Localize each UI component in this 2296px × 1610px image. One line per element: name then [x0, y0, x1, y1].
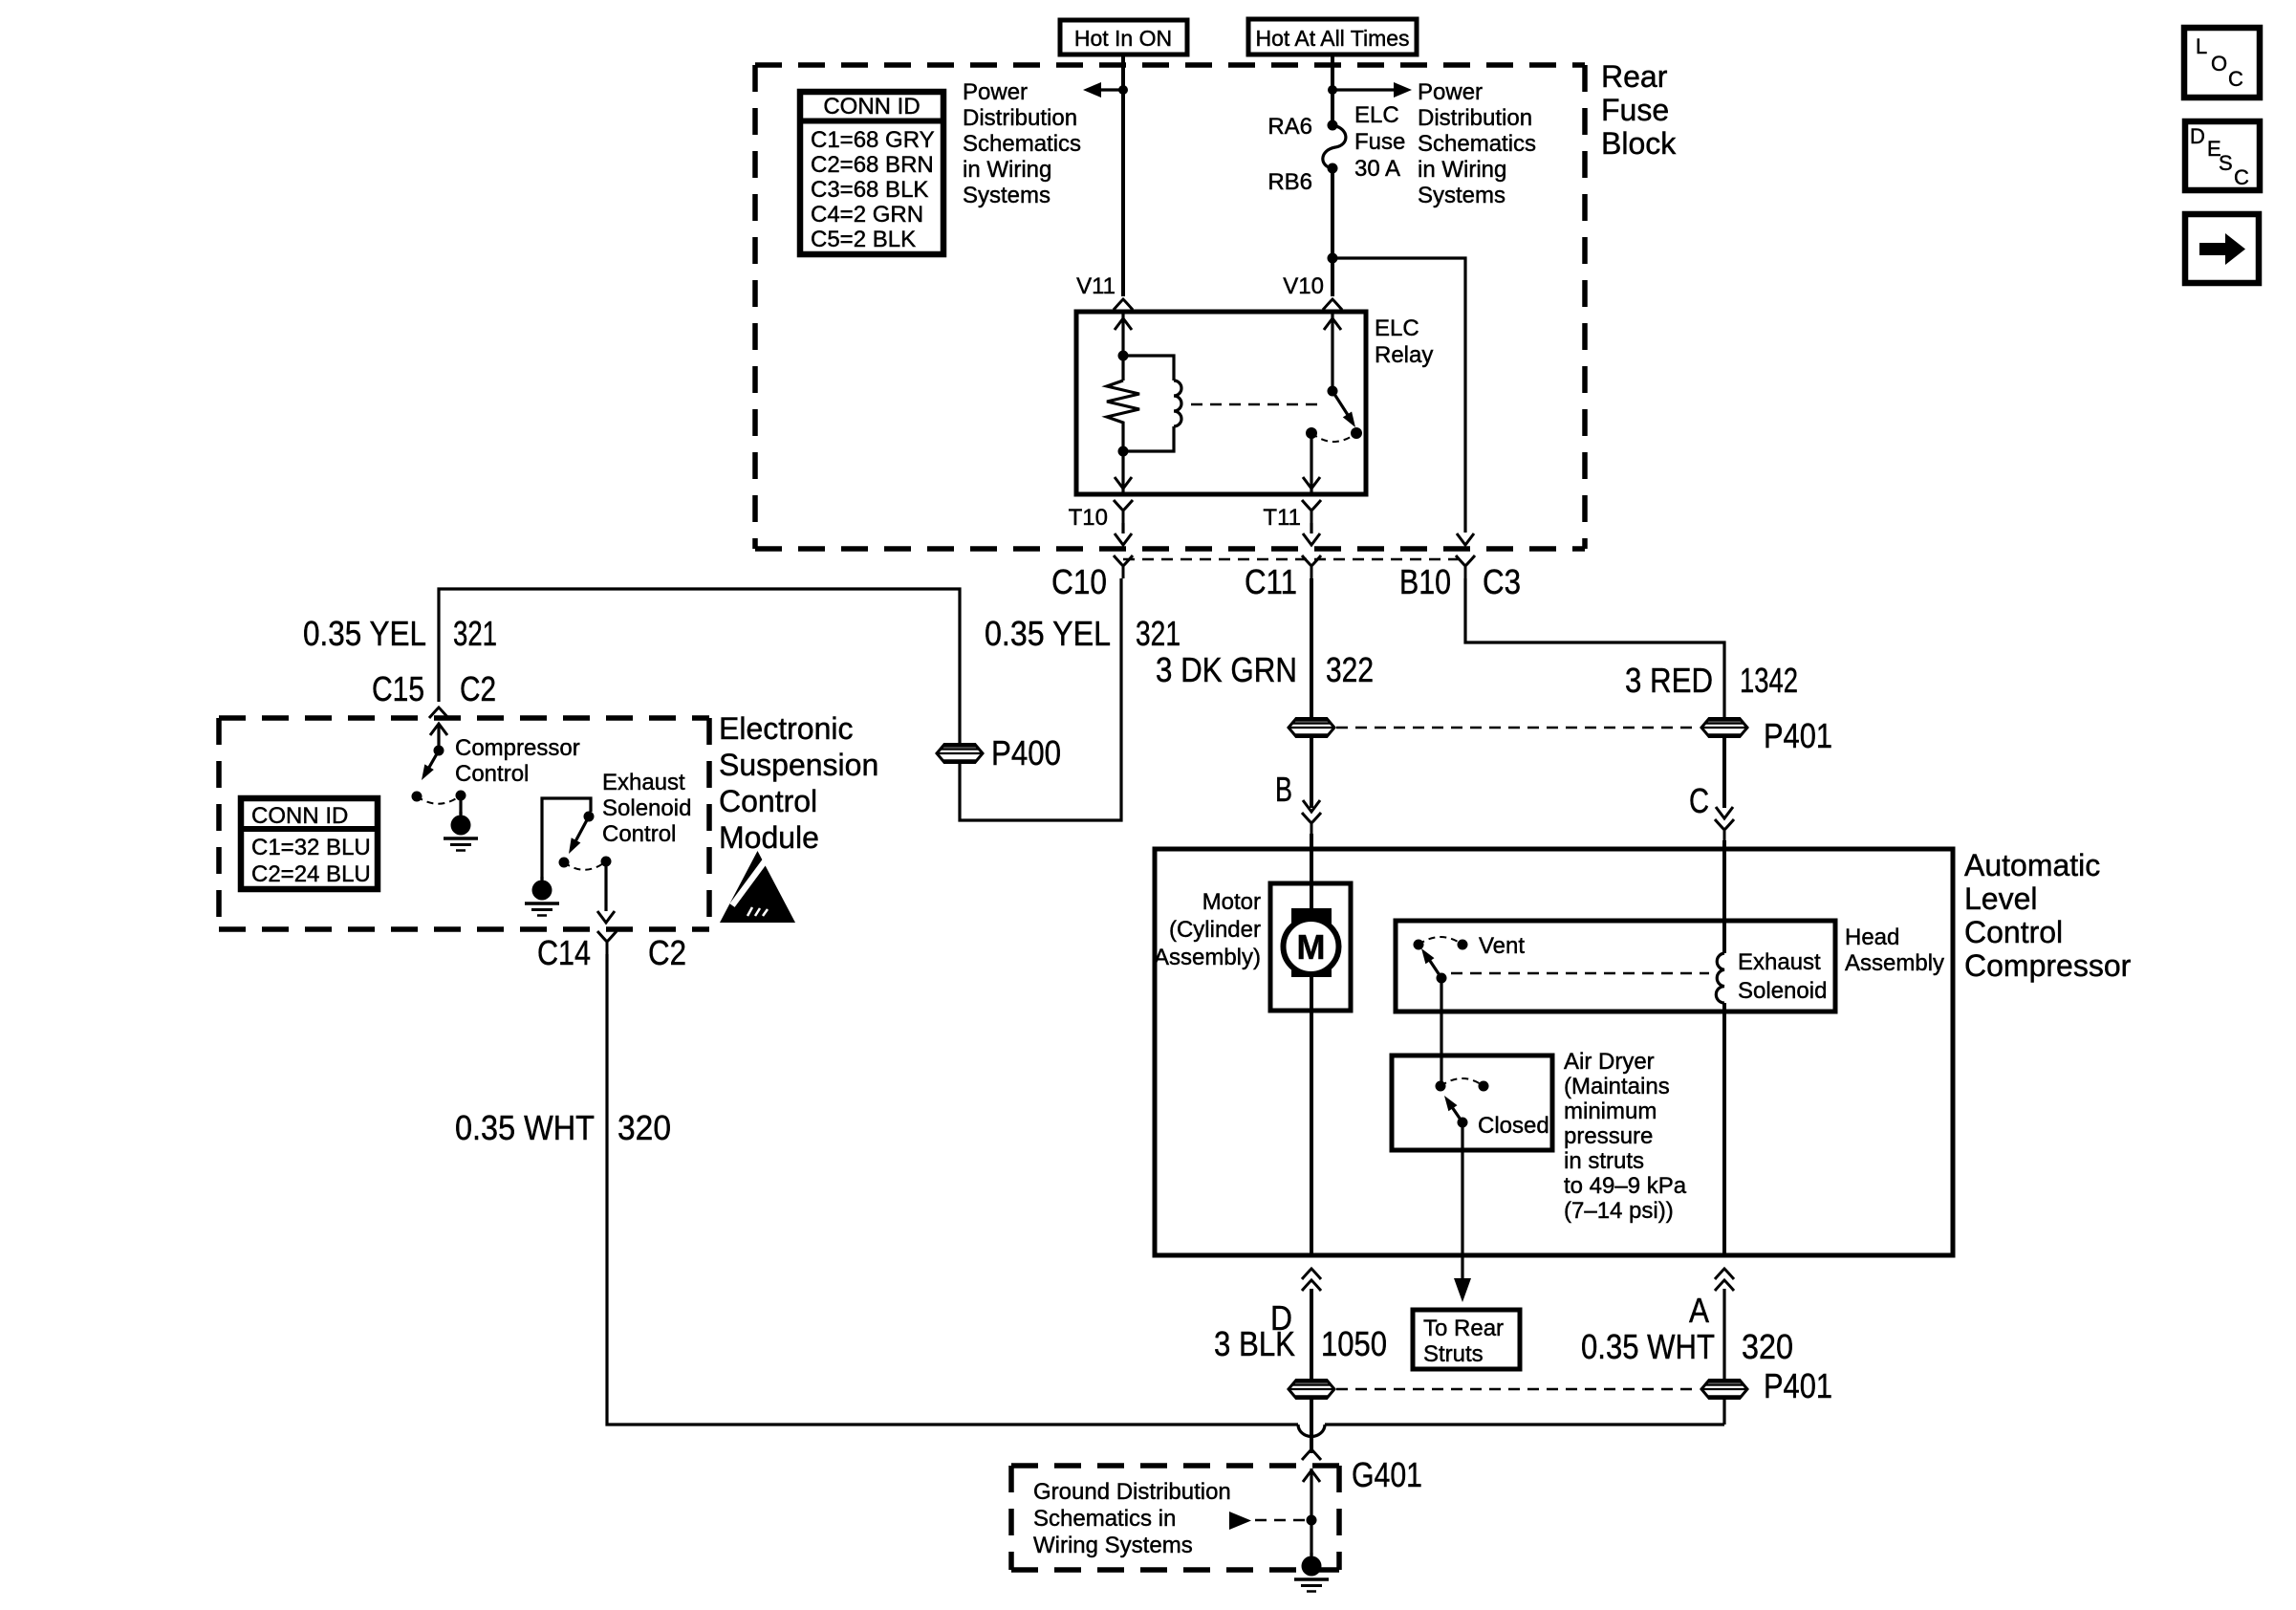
wire fuse output: [1331, 168, 1334, 296]
dashed connector tie line P401 (top): [1336, 727, 1700, 729]
switch Vent: [1414, 937, 1468, 984]
electronic suspension control module dashed box: [219, 718, 709, 929]
label Closed: [1478, 1113, 1549, 1139]
pin C10: [1051, 562, 1107, 601]
svg-text:Struts: Struts: [1423, 1341, 1484, 1367]
connector mark C15/C2: [429, 707, 448, 718]
svg-text:1050: 1050: [1321, 1324, 1387, 1363]
node Hot In ON: [1060, 20, 1187, 54]
svg-text:Closed: Closed: [1478, 1113, 1549, 1139]
pin RB6: [1267, 169, 1312, 195]
svg-text:Power: Power: [963, 79, 1028, 105]
svg-text:C3=68 BLK: C3=68 BLK: [811, 177, 928, 203]
svg-text:Head: Head: [1845, 925, 1899, 950]
svg-text:C2=24 BLU: C2=24 BLU: [251, 861, 371, 887]
svg-text:C: C: [1689, 781, 1709, 820]
connector interface dashed line C10-C11-C3: [1123, 558, 1465, 560]
svg-text:(Maintains: (Maintains: [1564, 1074, 1670, 1099]
svg-text:RA6: RA6: [1267, 114, 1312, 140]
svg-text:D: D: [2190, 124, 2205, 148]
svg-text:Block: Block: [1601, 126, 1677, 161]
svg-text:Compressor: Compressor: [1964, 948, 2132, 983]
inline connector P401 (WHT) bottom: [1701, 1381, 1747, 1399]
svg-text:CONN ID: CONN ID: [823, 94, 920, 120]
svg-text:Assembly): Assembly): [1154, 945, 1261, 970]
svg-text:Air Dryer: Air Dryer: [1564, 1049, 1655, 1075]
svg-text:minimum: minimum: [1564, 1099, 1657, 1124]
wire terminal B into compressor: [1310, 834, 1313, 1255]
relay switch: [1303, 312, 1362, 494]
svg-text:C3: C3: [1483, 562, 1521, 601]
svg-text:in Wiring: in Wiring: [1418, 157, 1506, 183]
svg-text:Relay: Relay: [1375, 342, 1433, 368]
svg-text:C1=32 BLU: C1=32 BLU: [251, 835, 371, 860]
rear fuse block dashed box: [755, 65, 1585, 549]
label Electronic Suspension Control Module: [719, 711, 878, 855]
svg-text:Wiring Systems: Wiring Systems: [1033, 1533, 1193, 1558]
connector mark terminal D: [1302, 1269, 1321, 1291]
svg-text:C1=68 GRY: C1=68 GRY: [811, 127, 935, 153]
compressor box Automatic Level Control Compressor: [1155, 849, 1953, 1255]
arrow into terminal B: [1303, 800, 1320, 812]
svg-text:P400: P400: [991, 733, 1061, 772]
switch Exhaust Solenoid Control: [542, 798, 612, 880]
svg-text:ELC: ELC: [1354, 102, 1399, 128]
svg-text:Schematics: Schematics: [963, 131, 1081, 157]
junction dot battery feed: [1328, 85, 1337, 95]
svg-text:Rear: Rear: [1601, 59, 1668, 94]
svg-text:321: 321: [1136, 614, 1180, 653]
dashed connector tie line P401 (bottom): [1336, 1388, 1700, 1390]
junction dot V11 feed: [1118, 85, 1128, 95]
svg-text:Fuse: Fuse: [1601, 93, 1669, 127]
label P400: [991, 733, 1061, 772]
dashed actuation link (relay): [1191, 403, 1325, 405]
air dryer box: [1392, 1055, 1552, 1150]
pin C15 / C2: [372, 669, 496, 708]
svg-text:(Cylinder: (Cylinder: [1169, 917, 1261, 943]
wire to B10 C3 terminal: [1332, 258, 1465, 533]
connector mark V10: [1323, 299, 1342, 310]
wire T11 to C11: [1303, 523, 1320, 545]
svg-text:0.35 YEL: 0.35 YEL: [985, 614, 1111, 653]
connector mark T10: [1114, 500, 1133, 523]
arrow to power distribution (right): [1332, 82, 1412, 98]
svg-text:L: L: [2196, 34, 2207, 58]
label Compressor Control: [455, 735, 580, 787]
svg-text:3 BLK: 3 BLK: [1214, 1324, 1295, 1363]
junction dot G401: [1307, 1515, 1317, 1526]
wire 0.35 YEL 321 routing (C10 to P400 to ESC C2): [439, 578, 1121, 820]
svg-text:322: 322: [1326, 650, 1374, 689]
ground bus junction hop: [1298, 1425, 1724, 1437]
connector mark V11: [1114, 299, 1133, 310]
switch Compressor Control: [412, 724, 466, 815]
svg-text:3 RED: 3 RED: [1625, 661, 1713, 700]
svg-text:O: O: [2211, 52, 2227, 76]
svg-text:B10: B10: [1399, 562, 1451, 601]
svg-text:C: C: [2228, 67, 2243, 91]
pin T10: [1069, 505, 1108, 531]
svg-text:Control: Control: [455, 761, 529, 787]
icon box arrow: [2185, 214, 2259, 283]
wire vent switch to air dryer: [1440, 978, 1442, 1083]
label Head Assembly: [1845, 925, 1944, 976]
label Exhaust Solenoid: [1738, 949, 1827, 1004]
svg-text:C4=2 GRN: C4=2 GRN: [811, 202, 923, 228]
svg-text:320: 320: [1742, 1327, 1793, 1366]
motor M (cylinder assembly): [1270, 883, 1351, 1011]
svg-text:V10: V10: [1283, 273, 1324, 299]
svg-text:Systems: Systems: [1418, 183, 1505, 208]
inline connector (DK GRN) at P401: [1289, 719, 1334, 737]
svg-text:M: M: [1297, 927, 1326, 967]
svg-text:Ground Distribution: Ground Distribution: [1033, 1479, 1231, 1505]
svg-text:Control: Control: [719, 784, 817, 818]
svg-text:(7–14 psi)): (7–14 psi)): [1564, 1198, 1674, 1224]
wire 3 BLK 1050: [1310, 1289, 1313, 1453]
relay coil-side pin arrows: [1115, 312, 1132, 494]
svg-text:V11: V11: [1076, 273, 1116, 299]
arrow B10 into connector: [1457, 533, 1474, 545]
junction dot relay coil top: [1118, 351, 1129, 361]
svg-text:C2=68 BRN: C2=68 BRN: [811, 152, 934, 178]
connector mark T11: [1302, 500, 1321, 523]
svg-text:30 A: 30 A: [1354, 156, 1400, 182]
svg-text:Automatic: Automatic: [1964, 848, 2100, 882]
pin T11: [1263, 505, 1301, 531]
dashed reference arrow (ground distribution): [1229, 1512, 1306, 1530]
wire Hot At All Times battery feed: [1331, 54, 1334, 126]
wire 3 DK GRN 322 (C11 down to compressor B): [1310, 578, 1313, 808]
connector mark C14/C2: [597, 931, 617, 954]
svg-text:C14: C14: [537, 933, 591, 972]
svg-text:Hot At All Times: Hot At All Times: [1255, 26, 1409, 51]
pin RA6: [1267, 114, 1312, 140]
note Ground Distribution Schematics in Wiring Systems: [1033, 1479, 1231, 1558]
svg-text:Control: Control: [602, 821, 676, 847]
icon box LOC: [2184, 28, 2260, 98]
svg-text:B: B: [1275, 770, 1292, 809]
svg-text:Exhaust: Exhaust: [1738, 949, 1821, 975]
svg-text:Distribution: Distribution: [1418, 105, 1532, 131]
label 3 DK GRN 322: [1156, 650, 1374, 689]
svg-text:0.35 WHT: 0.35 WHT: [1581, 1327, 1715, 1366]
svg-text:Hot In ON: Hot In ON: [1074, 26, 1172, 51]
dashed mechanical link vent-solenoid: [1451, 972, 1709, 974]
ground (compressor control): [444, 812, 478, 851]
arrow to power distribution (left): [1083, 82, 1123, 98]
wire terminal C into compressor: [1722, 840, 1726, 953]
note Air Dryer (Maintains minimum pressure...): [1564, 1049, 1687, 1224]
svg-text:0.35 WHT: 0.35 WHT: [455, 1108, 595, 1147]
label Rear Fuse Block: [1601, 59, 1677, 161]
wire 0.35 WHT 320 (C14 to ground bus): [607, 954, 1298, 1425]
svg-text:Distribution: Distribution: [963, 105, 1077, 131]
svg-text:Module: Module: [719, 820, 819, 855]
wire 0.35 WHT 320 (right): [1722, 1289, 1725, 1425]
svg-text:Motor: Motor: [1202, 889, 1261, 915]
svg-text:in struts: in struts: [1564, 1148, 1644, 1174]
inline connector P401 (RED): [1701, 719, 1747, 737]
svg-text:Exhaust: Exhaust: [602, 770, 685, 795]
note Power Distribution Schematics in Wiring Systems (right): [1418, 79, 1536, 208]
CONN ID table (ESC module): [241, 798, 378, 889]
inline connector P400: [937, 745, 983, 763]
resistor (relay suppression): [1107, 381, 1139, 424]
svg-text:Assembly: Assembly: [1845, 950, 1944, 976]
svg-text:321: 321: [453, 614, 497, 653]
svg-text:Systems: Systems: [963, 183, 1051, 208]
svg-text:C10: C10: [1051, 562, 1107, 601]
svg-text:Fuse: Fuse: [1354, 129, 1405, 155]
svg-text:P401: P401: [1764, 716, 1832, 755]
svg-text:RB6: RB6: [1267, 169, 1312, 195]
svg-text:Level: Level: [1964, 881, 2038, 916]
svg-text:Vent: Vent: [1479, 933, 1525, 959]
svg-text:C11: C11: [1245, 562, 1297, 601]
solenoid coil Exhaust Solenoid: [1716, 953, 1724, 1255]
CONN ID table (rear fuse block): [800, 92, 943, 254]
svg-text:pressure: pressure: [1564, 1123, 1653, 1149]
svg-text:CONN ID: CONN ID: [251, 803, 348, 829]
pin V11: [1076, 273, 1116, 299]
label Automatic Level Control Compressor: [1964, 848, 2132, 983]
label Exhaust Solenoid Control: [602, 770, 691, 847]
icon box DESC: [2185, 121, 2260, 190]
G401 dashed box: [1011, 1466, 1339, 1570]
switch Closed (air dryer): [1436, 1078, 1489, 1128]
terminal D: [1270, 1298, 1292, 1338]
wire into G401: [1303, 1469, 1320, 1556]
connector mark C10: [1114, 555, 1133, 578]
svg-text:C2: C2: [460, 669, 496, 708]
label ELC Fuse 30 A: [1354, 102, 1405, 182]
connector mark G401 splice: [1302, 1449, 1321, 1460]
svg-text:C15: C15: [372, 669, 424, 708]
wire Hot In ON ignition feed: [1121, 54, 1125, 296]
pin V10: [1283, 273, 1324, 299]
ground G401: [1294, 1553, 1329, 1592]
connector mark terminal C: [1715, 819, 1734, 842]
svg-text:Schematics: Schematics: [1418, 131, 1536, 157]
wire T10 to C10: [1115, 523, 1132, 545]
junction dot relay coil bottom: [1118, 446, 1129, 457]
svg-text:S: S: [2219, 151, 2233, 175]
connector mark C3: [1456, 555, 1475, 578]
label Motor (Cylinder Assembly): [1154, 889, 1261, 970]
connector mark terminal A: [1715, 1269, 1734, 1291]
svg-text:Power: Power: [1418, 79, 1483, 105]
fuse ELC Fuse 30 A: [1323, 120, 1346, 174]
svg-text:Compressor: Compressor: [455, 735, 580, 761]
connector mark C11: [1302, 555, 1321, 578]
terminal A: [1689, 1291, 1709, 1330]
svg-text:Suspension: Suspension: [719, 748, 878, 782]
wire 3 RED 1342 (C3 to P401 to compressor C): [1465, 578, 1724, 808]
svg-text:ELC: ELC: [1375, 315, 1419, 341]
ESD sensitivity symbol: [720, 851, 795, 923]
terminal B: [1275, 770, 1292, 809]
svg-text:Control: Control: [1964, 915, 2063, 949]
svg-text:Solenoid: Solenoid: [1738, 978, 1827, 1004]
inline connector (BLK) at P401 bottom: [1289, 1381, 1334, 1399]
svg-text:G401: G401: [1352, 1455, 1422, 1494]
terminal C: [1689, 781, 1709, 820]
label 0.35 WHT 320 (right): [1581, 1327, 1793, 1366]
arrow into terminal C: [1716, 807, 1733, 818]
svg-text:Schematics in: Schematics in: [1033, 1506, 1176, 1532]
svg-text:320: 320: [617, 1108, 671, 1147]
label 0.35 WHT 320 (left): [455, 1108, 671, 1147]
svg-text:A: A: [1689, 1291, 1709, 1330]
svg-text:P401: P401: [1764, 1366, 1832, 1405]
label P401 (bottom): [1764, 1366, 1832, 1405]
node Hot At All Times: [1248, 19, 1417, 54]
svg-text:0.35 YEL: 0.35 YEL: [303, 614, 426, 653]
relay box ELC Relay: [1076, 312, 1366, 494]
svg-text:1342: 1342: [1740, 661, 1798, 700]
inductor relay coil: [1123, 356, 1181, 451]
svg-text:C: C: [2234, 165, 2249, 189]
pin C11: [1245, 562, 1297, 601]
svg-text:Solenoid: Solenoid: [602, 795, 691, 821]
head assembly box: [1396, 921, 1835, 1012]
label G401: [1352, 1455, 1422, 1494]
wire exhaust solenoid control output: [597, 861, 615, 923]
svg-text:T11: T11: [1263, 505, 1301, 531]
wire air dryer to rear struts: [1454, 1122, 1471, 1302]
connector mark terminal B: [1302, 813, 1321, 836]
pin C14 / C2: [537, 933, 686, 972]
label 3 BLK 1050: [1214, 1324, 1387, 1363]
label 0.35 YEL 321 (right): [985, 614, 1180, 653]
label 0.35 YEL 321 (left): [303, 614, 497, 653]
svg-text:To Rear: To Rear: [1423, 1316, 1504, 1341]
label ELC Relay: [1375, 315, 1433, 368]
svg-text:T10: T10: [1069, 505, 1108, 531]
pin B10 / C3: [1399, 562, 1521, 601]
svg-text:Electronic: Electronic: [719, 711, 854, 746]
svg-text:3 DK GRN: 3 DK GRN: [1156, 650, 1297, 689]
node To Rear Struts: [1413, 1310, 1520, 1369]
svg-text:C5=2 BLK: C5=2 BLK: [811, 227, 916, 252]
ground (exhaust solenoid control): [525, 877, 559, 916]
svg-text:C2: C2: [648, 933, 686, 972]
junction dot fuse output: [1328, 253, 1338, 264]
label P401 (top): [1764, 716, 1832, 755]
note Power Distribution Schematics in Wiring Systems (left): [963, 79, 1081, 208]
label Vent: [1479, 933, 1525, 959]
svg-text:in Wiring: in Wiring: [963, 157, 1051, 183]
label 3 RED 1342: [1625, 661, 1798, 700]
svg-text:to 49–9 kPa: to 49–9 kPa: [1564, 1173, 1687, 1199]
